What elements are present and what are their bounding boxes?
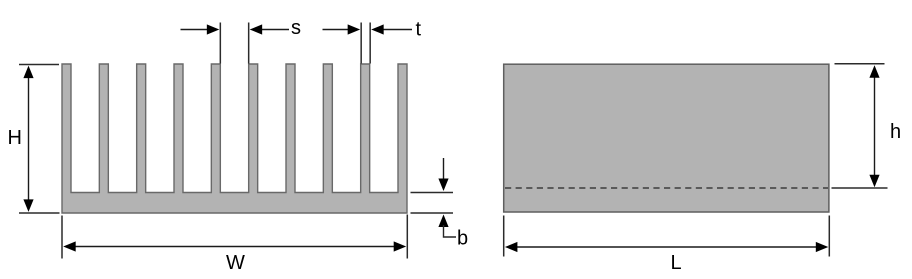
dimension b upper arrow (pointing down) bbox=[443, 158, 445, 181]
svg-text:W: W bbox=[226, 252, 245, 274]
dimension t right arrow bbox=[382, 29, 412, 31]
heat sink side view rectangle bbox=[504, 64, 829, 212]
dimension L left extension line bbox=[503, 216, 505, 257]
dimension W arrow line bbox=[73, 246, 396, 248]
dimension s right extension line bbox=[248, 23, 250, 64]
dashed base line bbox=[505, 187, 828, 189]
svg-text:s: s bbox=[291, 17, 301, 39]
heat sink cross-section (comb with 10 fins) bbox=[62, 64, 407, 213]
dimension h top extension line bbox=[835, 63, 885, 65]
dimension H top extension line bbox=[19, 64, 59, 66]
dimension t left extension line bbox=[360, 23, 362, 64]
dimension s left extension line bbox=[219, 23, 221, 64]
dimension h bottom extension line bbox=[832, 187, 888, 189]
svg-text:H: H bbox=[8, 127, 22, 149]
dimension W left extension line bbox=[61, 216, 63, 259]
dimension s right arrow bbox=[260, 29, 289, 31]
dimension h arrow line bbox=[874, 75, 876, 177]
svg-text:b: b bbox=[457, 228, 468, 250]
dimension H arrow line bbox=[28, 76, 30, 201]
dimension t left arrow bbox=[323, 29, 351, 31]
svg-text:L: L bbox=[671, 252, 682, 274]
dimension b top extension line bbox=[411, 192, 454, 194]
dimension t right extension line bbox=[369, 23, 371, 64]
dimension W right extension line bbox=[406, 215, 408, 259]
dimension b bottom extension line bbox=[411, 212, 454, 214]
dimension b lower arrow (pointing up) with leader bbox=[438, 215, 448, 228]
svg-text:t: t bbox=[416, 19, 422, 41]
dimension H bottom extension line bbox=[19, 212, 60, 214]
dimension L arrow line bbox=[514, 246, 819, 248]
dimension L right extension line bbox=[828, 216, 830, 257]
svg-text:h: h bbox=[890, 121, 901, 143]
dimension s left arrow bbox=[181, 29, 211, 31]
